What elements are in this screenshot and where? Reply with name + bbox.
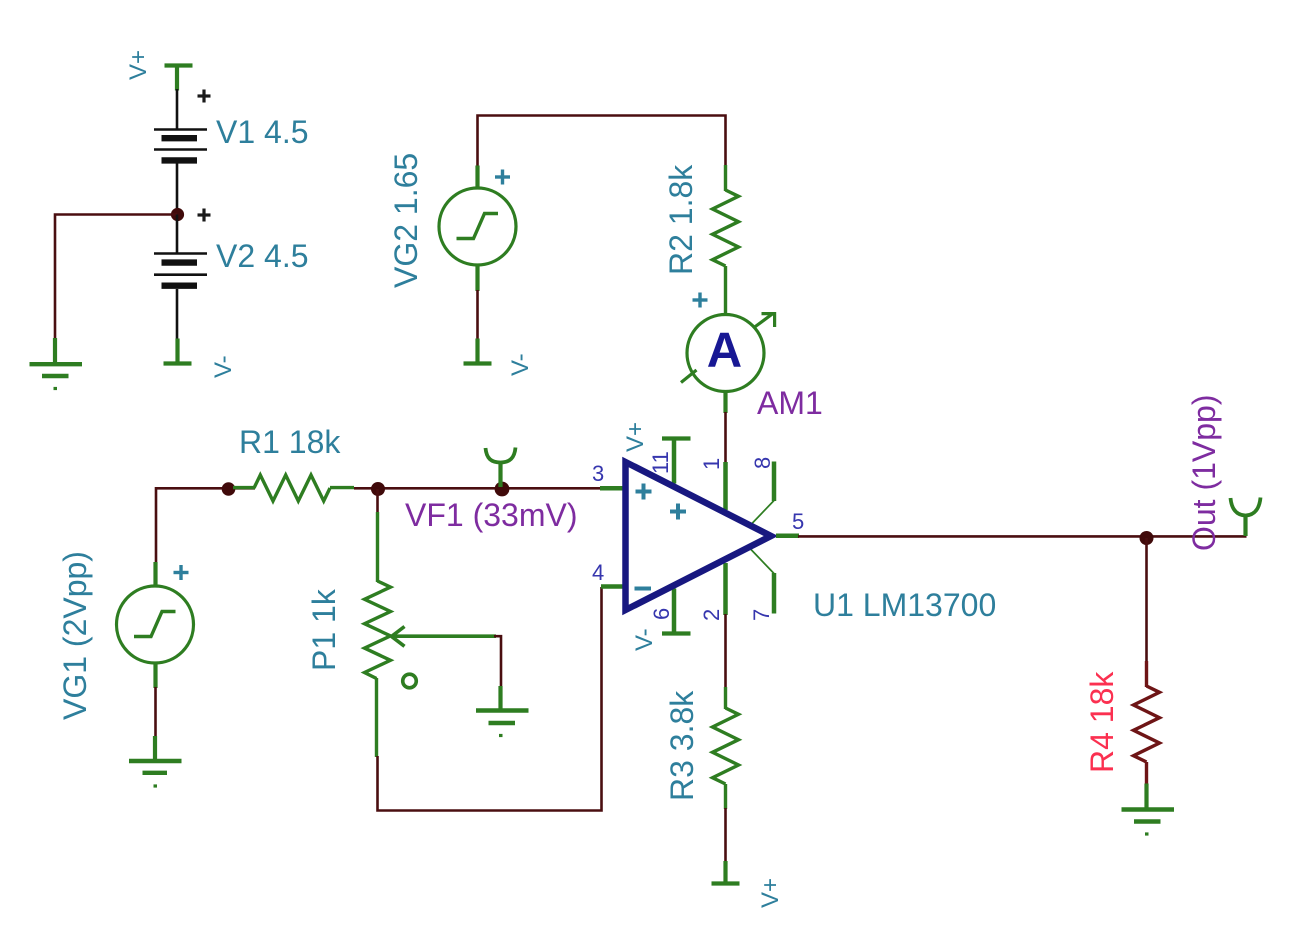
plus sign VG2 bbox=[495, 170, 510, 185]
wire P1 bottom to pin 4 bbox=[378, 587, 602, 811]
svg-text:V+: V+ bbox=[757, 878, 784, 908]
wire VG1 bottom bbox=[154, 687, 157, 737]
plus sign VG1 bbox=[174, 565, 189, 580]
svg-text:8: 8 bbox=[750, 457, 775, 469]
terminal V+ jumper (battery top) bbox=[165, 66, 193, 91]
node (VG1/R1) bbox=[222, 482, 236, 496]
pin 7 stub bbox=[751, 550, 774, 614]
wire wiper to ground bbox=[494, 636, 501, 687]
svg-text:V-: V- bbox=[507, 353, 534, 376]
plus sign V1 bbox=[198, 90, 211, 103]
svg-text:U1 LM13700: U1 LM13700 bbox=[813, 587, 996, 623]
svg-text:V+: V+ bbox=[125, 50, 152, 80]
terminal V+ (R3 bottom) bbox=[712, 861, 740, 884]
node (VF1) bbox=[495, 482, 510, 497]
svg-text:R2 1.8k: R2 1.8k bbox=[663, 164, 699, 275]
pin 1 stub bbox=[723, 462, 728, 510]
potentiometer P1 bbox=[365, 512, 391, 757]
probe VF1 bbox=[486, 448, 516, 488]
wire R3 to V+ terminal bbox=[724, 808, 727, 862]
wire AM1 to pin 1 bbox=[724, 412, 727, 463]
svg-text:2: 2 bbox=[699, 609, 724, 621]
resistor R2 bbox=[713, 165, 739, 316]
resistor R4 bbox=[1134, 661, 1160, 784]
wire pin 2 to R3 bbox=[724, 614, 727, 688]
svg-text:R1 18k: R1 18k bbox=[239, 424, 341, 460]
ground (R4) bbox=[1122, 784, 1175, 835]
battery V1 bbox=[154, 130, 207, 161]
wire pin 5 to output bbox=[798, 535, 1247, 538]
potentiometer indicator circle bbox=[403, 674, 417, 688]
svg-text:P1 1k: P1 1k bbox=[306, 588, 342, 671]
pin 2 stub bbox=[723, 563, 728, 615]
svg-text:VG1 (2Vpp): VG1 (2Vpp) bbox=[57, 551, 93, 720]
svg-text:R3 3.8k: R3 3.8k bbox=[664, 690, 700, 801]
plus sign AM1 bbox=[693, 293, 708, 308]
terminal V- (battery bottom) bbox=[164, 339, 192, 364]
ammeter AM1 bbox=[681, 314, 775, 413]
svg-text:7: 7 bbox=[749, 609, 774, 621]
ground (battery midpoint) bbox=[30, 338, 83, 389]
pin 8 stub bbox=[751, 462, 774, 525]
generator VG1 bbox=[117, 562, 194, 688]
svg-text:VF1 (33mV): VF1 (33mV) bbox=[405, 497, 577, 533]
wire junction to left ground bbox=[55, 215, 177, 339]
pin 11 jumper bbox=[662, 439, 691, 484]
pin 3 stub bbox=[600, 486, 625, 491]
svg-text:R4 18k: R4 18k bbox=[1084, 671, 1120, 773]
svg-text:V+: V+ bbox=[622, 422, 649, 452]
svg-text:AM1: AM1 bbox=[757, 385, 823, 421]
op-amp plus mark (bias) bbox=[670, 504, 686, 520]
wire V1 to junction bbox=[176, 164, 179, 215]
junction node between V1 and V2 bbox=[171, 208, 184, 221]
ground (VG1) bbox=[129, 736, 182, 786]
svg-text:11: 11 bbox=[648, 451, 673, 474]
plus sign V2 bbox=[198, 209, 211, 222]
ground (wiper) bbox=[476, 686, 529, 736]
op-amp plus mark (pin 3) bbox=[636, 484, 652, 500]
wire VG2 bottom bbox=[476, 290, 479, 339]
op-amp U1 triangle bbox=[626, 462, 772, 610]
wire R1 to pin 3 bbox=[354, 487, 601, 490]
wire output to R4 bbox=[1145, 538, 1148, 662]
wire V2 to bottom terminal bbox=[176, 289, 179, 339]
wire VG1 to R1 bbox=[156, 488, 255, 563]
svg-text:V-: V- bbox=[210, 355, 237, 378]
terminal V- (VG2 bottom) bbox=[464, 339, 492, 364]
svg-text:V1 4.5: V1 4.5 bbox=[216, 114, 309, 150]
op-amp minus mark (pin 4) bbox=[635, 587, 652, 591]
pin 6 jumper bbox=[662, 589, 691, 634]
wire VG2 to R2 top bbox=[478, 116, 726, 167]
svg-text:Out (1Vpp): Out (1Vpp) bbox=[1186, 394, 1222, 551]
potentiometer wiper arrow bbox=[392, 627, 497, 647]
battery V2 bbox=[154, 254, 207, 286]
svg-text:V2 4.5: V2 4.5 bbox=[216, 238, 309, 274]
pin 5 stub bbox=[776, 534, 799, 539]
resistor R1 bbox=[233, 475, 354, 501]
wire P1 tap down bbox=[376, 489, 379, 514]
resistor R3 bbox=[713, 687, 739, 809]
wire junction to V2 bbox=[176, 215, 179, 254]
svg-text:1: 1 bbox=[699, 458, 724, 470]
svg-text:4: 4 bbox=[592, 560, 604, 585]
node (output) bbox=[1140, 531, 1154, 545]
probe Out bbox=[1231, 498, 1261, 537]
svg-text:6: 6 bbox=[649, 608, 674, 620]
svg-text:V-: V- bbox=[631, 628, 658, 651]
wire battery top bbox=[176, 89, 179, 129]
pin 4 stub bbox=[601, 584, 625, 589]
svg-text:5: 5 bbox=[792, 509, 804, 534]
node (P1 tap) bbox=[371, 482, 385, 496]
svg-text:A: A bbox=[707, 324, 742, 378]
generator VG2 bbox=[439, 166, 516, 292]
svg-text:VG2 1.65: VG2 1.65 bbox=[388, 153, 424, 288]
svg-text:3: 3 bbox=[592, 461, 604, 486]
